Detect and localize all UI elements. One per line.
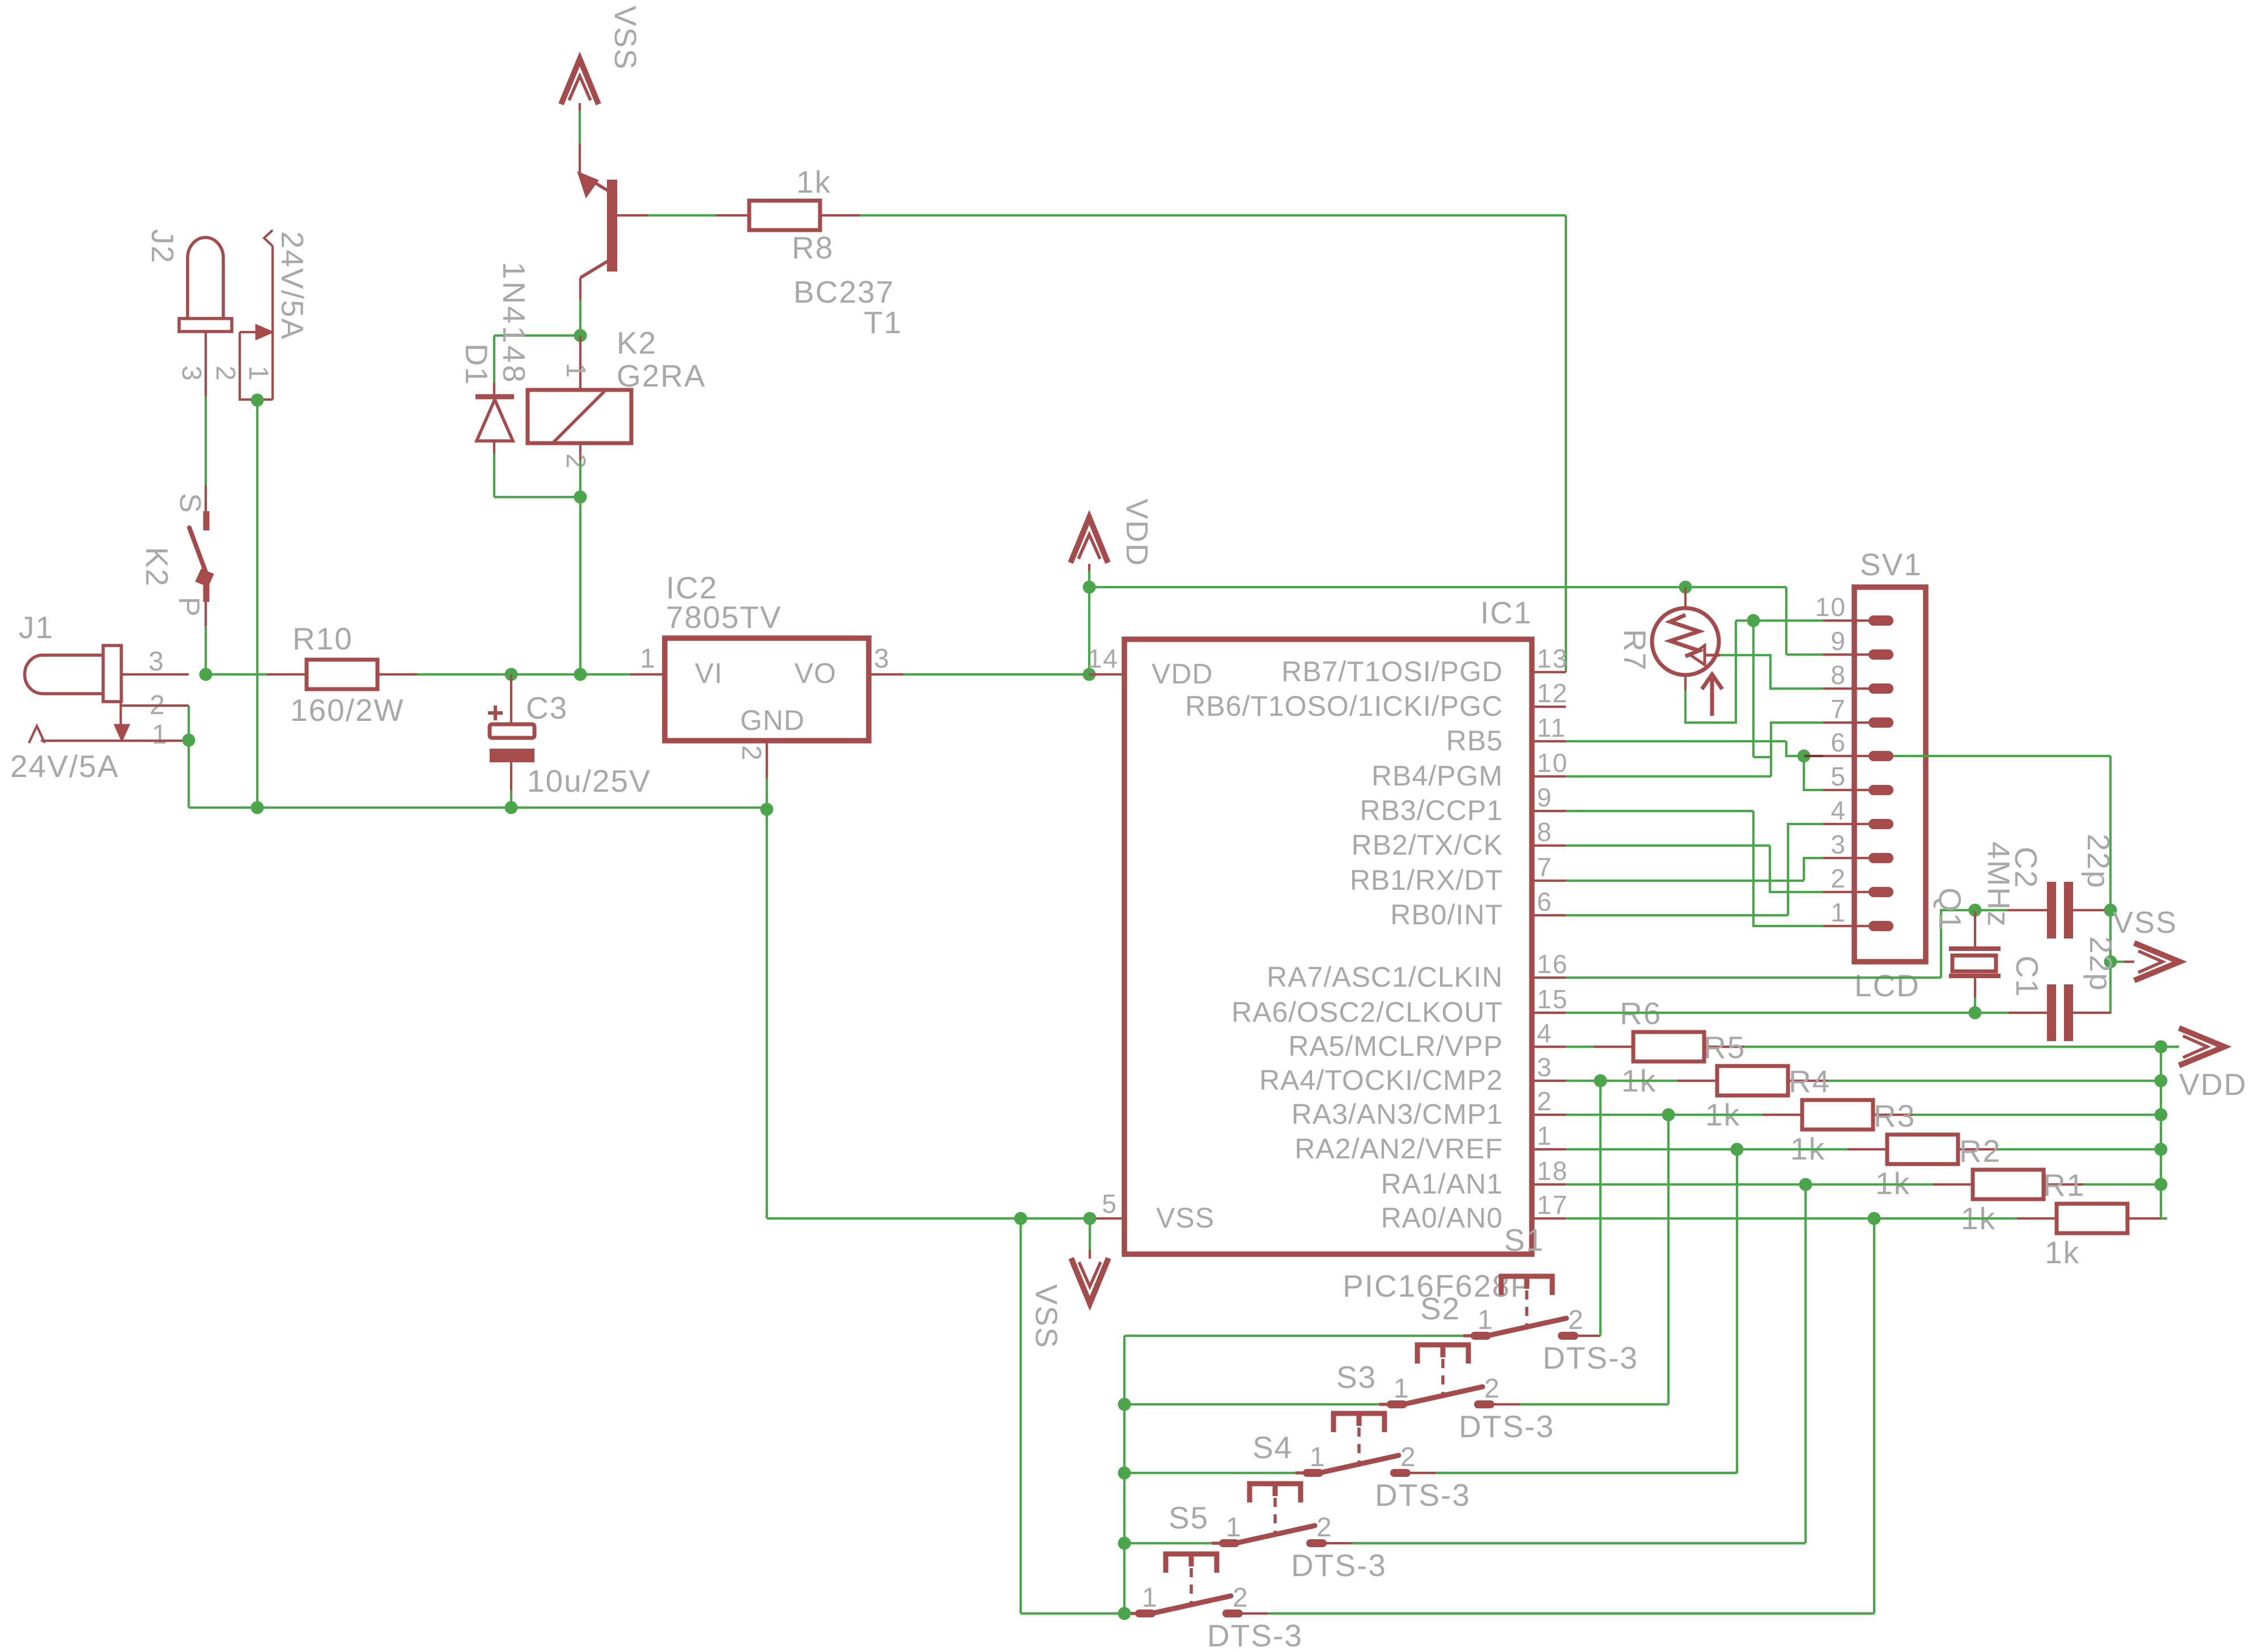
SV1 pin 7 bar <box>1868 717 1893 728</box>
switch S2 pin 2 contact <box>1478 1400 1490 1408</box>
IC1 pin 18 stub <box>1532 1183 1566 1186</box>
switch contact K2 terminal S <box>205 486 207 511</box>
wire S4 riser up to resistor ladder <box>1804 1184 1807 1543</box>
SV1 pin 8 stub <box>1823 687 1868 690</box>
diode D1 cathode bar <box>475 394 514 400</box>
wire IC1 RB4 to SV1 pin7 <box>1566 775 1771 778</box>
svg-text:RA2/AN2/VREF: RA2/AN2/VREF <box>1294 1133 1503 1165</box>
wire node to IC2 VI pin <box>580 673 630 676</box>
svg-text:22p: 22p <box>2083 936 2118 992</box>
svg-text:6: 6 <box>1830 728 1846 757</box>
wire S1 riser up to resistor ladder <box>1599 1081 1602 1336</box>
svg-text:DTS-3: DTS-3 <box>1207 1618 1303 1652</box>
capacitor C3 bottom lead <box>510 762 512 791</box>
svg-text:R8: R8 <box>792 230 834 265</box>
connector J2 sleeve line with 24V/5A flag <box>264 230 273 246</box>
resistor R8 body <box>749 201 820 230</box>
wire node to D1 cathode <box>494 334 580 337</box>
switch S5 pin 1 contact <box>1128 1612 1152 1615</box>
switch S1 pin 2 contact <box>1562 1332 1574 1340</box>
power symbol VSS (below IC1) <box>1089 1218 1091 1250</box>
switch S3 pin 1 contact <box>1296 1471 1319 1475</box>
junction node rail / IC2 GND <box>761 803 774 816</box>
junction node row R4 / switch riser <box>1662 1109 1675 1122</box>
wire S2 riser up to resistor ladder <box>1667 1115 1670 1404</box>
switch S3 lever <box>1319 1455 1399 1473</box>
svg-text:RA0/AN0: RA0/AN0 <box>1381 1202 1503 1234</box>
wire R1 to VDD riser <box>2161 1217 2167 1220</box>
wire 24V node to R10 <box>206 673 267 676</box>
junction node left rail bottom / S5 <box>1118 1607 1131 1620</box>
svg-text:15: 15 <box>1537 984 1568 1014</box>
SV1 pin 3 bar <box>1868 853 1893 863</box>
svg-text:9: 9 <box>1830 626 1846 656</box>
wire J2 pin3 down to switch K2 contact S <box>205 397 207 486</box>
crystal Q1 body <box>1952 955 1996 971</box>
capacitor C2 plates <box>2047 882 2056 938</box>
svg-text:14: 14 <box>1088 644 1119 673</box>
switch S1 lever <box>1487 1318 1566 1336</box>
VDD pin stub <box>1088 564 1090 571</box>
regulator IC2 body <box>665 638 869 741</box>
IC1 pin 15 stub <box>1532 1012 1566 1014</box>
junction node J2 pin1/pin2 <box>251 394 264 407</box>
wire IC1 RB5 to SV1 pin6 node <box>1566 740 1786 742</box>
svg-text:4: 4 <box>1830 796 1846 825</box>
wire S4 pin1 to left rail <box>1124 1542 1212 1544</box>
thermistor R7 arrow <box>1691 645 1705 665</box>
wire IC1 RB1 to SV1 pin3 <box>1566 880 1804 882</box>
junction node T1 emitter / relay coil / D1 <box>574 329 587 342</box>
switch S5 actuator dashed link <box>1190 1568 1193 1607</box>
capacitor C1 right lead <box>2071 1012 2110 1014</box>
svg-text:7805TV: 7805TV <box>666 600 782 635</box>
wire coil bottom node down to supply node <box>579 497 581 674</box>
transistor T1 base bar <box>607 180 617 271</box>
svg-text:2: 2 <box>210 366 240 382</box>
wire GND rail (24V return) <box>189 806 767 809</box>
power symbol VDD (right) <box>2161 1046 2179 1048</box>
junction node row R5 / switch riser <box>1594 1075 1607 1088</box>
IC1 pin 16 stub <box>1532 976 1566 979</box>
IC1 pin 9 stub <box>1532 810 1566 812</box>
resistor R2 right pin <box>2044 1183 2083 1186</box>
wire S5 pin2 to riser x=3307 <box>1239 1612 1874 1615</box>
IC1 pin 17 stub <box>1532 1217 1566 1220</box>
svg-text:C1: C1 <box>2010 955 2045 997</box>
svg-text:R1: R1 <box>2043 1167 2085 1203</box>
SV1 pin 3 stub <box>1823 857 1868 859</box>
svg-text:2: 2 <box>1316 1513 1333 1543</box>
junction node C3 top <box>505 668 518 681</box>
relay K2 coil pin 1 <box>579 336 581 390</box>
wire VDD riser (right) <box>2160 1047 2162 1218</box>
junction node VDD riser / R4 <box>2155 1109 2168 1122</box>
svg-text:IC1: IC1 <box>1480 595 1532 630</box>
regulator IC2 pin 2 (GND) <box>766 741 768 778</box>
resistor R1 body <box>2057 1204 2127 1233</box>
resistor R6 left pin <box>1594 1046 1633 1048</box>
thermistor R7 light arrow <box>1710 678 1714 716</box>
svg-text:RA6/OSC2/CLKOUT: RA6/OSC2/CLKOUT <box>1231 996 1503 1028</box>
wire R7 bottom to SV1 pin10 row <box>1685 621 1736 723</box>
SV1 pin 4 bar <box>1868 819 1893 829</box>
connector J1 pin 3 stub <box>121 673 189 676</box>
junction node IC1 pin14 <box>1083 668 1096 681</box>
wire IC1 RA6 to crystal bottom <box>1566 1012 1975 1014</box>
svg-text:12: 12 <box>1537 678 1568 708</box>
wire VDD rail corner to SV1 pin10 row <box>1785 587 1787 655</box>
svg-text:D1: D1 <box>459 343 494 385</box>
svg-text:2: 2 <box>736 745 766 762</box>
svg-text:R5: R5 <box>1704 1030 1745 1065</box>
svg-text:160/2W: 160/2W <box>290 693 405 728</box>
wire R3 to VDD riser <box>1998 1148 2161 1150</box>
svg-text:VSS: VSS <box>608 6 642 70</box>
wire R8 to IC1 pin13 (net to RB7) <box>860 214 1566 216</box>
wire T1 collector to VSS <box>579 103 581 111</box>
svg-text:VSS: VSS <box>1029 1284 1063 1349</box>
capacitor C2 left lead <box>1975 909 2007 911</box>
svg-text:2: 2 <box>1830 864 1846 893</box>
wire C3 to GND rail <box>510 791 512 808</box>
svg-text:C3: C3 <box>526 690 568 725</box>
SV1 pin 7 stub <box>1823 721 1868 724</box>
svg-text:7: 7 <box>1830 694 1846 724</box>
svg-text:RA4/TOCKI/CMP2: RA4/TOCKI/CMP2 <box>1259 1064 1503 1096</box>
thermistor R7 zigzag <box>1670 615 1699 656</box>
svg-text:16: 16 <box>1537 949 1568 979</box>
switch S2 actuator dashed link <box>1441 1359 1445 1398</box>
svg-text:10: 10 <box>1815 592 1846 622</box>
capacitor C3 positive lead <box>510 674 512 724</box>
junction node VSS at IC1 pin5 <box>1084 1212 1097 1225</box>
switch S5 pin 2 contact <box>1226 1609 1239 1617</box>
wire VDD rail to SV1 side <box>1089 586 1786 588</box>
IC1 pin 1 stub <box>1532 1148 1566 1150</box>
capacitor C3 bottom plate <box>490 749 534 762</box>
IC1 pin 4 stub <box>1532 1046 1566 1048</box>
connector J2 pin 1 switch arrow <box>240 331 256 333</box>
connector J1 pin 1 switch arrow <box>120 706 122 725</box>
switch contact K2 terminal P <box>203 584 210 602</box>
junction node row R3 / switch riser <box>1731 1143 1744 1156</box>
wire to SV1 pin9 <box>1786 653 1823 656</box>
svg-text:8: 8 <box>1830 660 1846 690</box>
svg-text:1: 1 <box>640 644 656 674</box>
connector SV1 body <box>1854 587 1926 962</box>
capacitor C1 plates <box>2047 984 2056 1041</box>
wire R7 light line to SV1 pin8 <box>1720 655 1823 689</box>
svg-text:18: 18 <box>1537 1156 1568 1186</box>
resistor R3 right pin <box>1958 1148 1998 1150</box>
svg-text:RB6/T1OSO/1ICKI/PGC: RB6/T1OSO/1ICKI/PGC <box>1185 690 1503 722</box>
thermistor R7 bottom pin <box>1684 675 1687 690</box>
svg-text:R7: R7 <box>1617 629 1653 671</box>
svg-text:1: 1 <box>152 720 168 750</box>
junction node left rail / S3 <box>1118 1467 1131 1480</box>
relay K2 coil slash <box>553 390 606 443</box>
svg-text:R3: R3 <box>1874 1098 1916 1133</box>
resistor R2 left pin <box>1933 1183 1973 1186</box>
crystal Q1 top lead <box>1974 910 1976 947</box>
IC1 pin 11 stub <box>1532 740 1566 742</box>
svg-text:1: 1 <box>1394 1374 1410 1404</box>
svg-text:S4: S4 <box>1252 1430 1293 1465</box>
switch S2 button cap <box>1417 1345 1468 1364</box>
IC1 pin 10 stub <box>1532 775 1566 778</box>
svg-text:1: 1 <box>1142 1583 1158 1613</box>
SV1 pin 6 stub <box>1823 755 1868 757</box>
resistor R5 right pin <box>1788 1080 1828 1082</box>
regulator IC2 pin 1 (VI) <box>630 673 665 676</box>
svg-text:RA1/AN1: RA1/AN1 <box>1381 1168 1503 1200</box>
svg-text:5: 5 <box>1830 762 1846 791</box>
svg-text:11: 11 <box>1537 713 1566 742</box>
diode D1 triangle <box>477 400 513 441</box>
thermistor R7 circle <box>1652 608 1719 675</box>
capacitor C3 top plate <box>490 724 534 738</box>
SV1 pin 8 bar <box>1868 683 1893 694</box>
junction node SV1 pin6 <box>1798 750 1811 763</box>
switch S4 pin 1 contact <box>1212 1541 1235 1545</box>
svg-text:1: 1 <box>1477 1305 1494 1335</box>
svg-text:R4: R4 <box>1789 1064 1830 1099</box>
switch contact K2 lever <box>189 528 208 578</box>
IC1 pin 12 stub <box>1532 706 1566 708</box>
power symbol VSS (top, above T1) <box>561 59 598 104</box>
svg-text:RB1/RX/DT: RB1/RX/DT <box>1350 864 1503 896</box>
wire S1 pin1 to left rail <box>1124 1335 1463 1337</box>
svg-text:17: 17 <box>1537 1190 1568 1220</box>
wire IC1 RB3 to SV1 pin1 <box>1566 810 1753 812</box>
svg-text:K2: K2 <box>617 325 657 360</box>
capacitor C1 left lead <box>1975 1012 2008 1014</box>
wire K2 P to node <box>205 626 207 674</box>
svg-text:6: 6 <box>1537 887 1553 916</box>
relay K2 coil body <box>528 390 631 443</box>
SV1 pin 2 bar <box>1868 887 1893 897</box>
svg-text:24V/5A: 24V/5A <box>10 749 119 784</box>
switch S4 button cap <box>1250 1484 1301 1502</box>
svg-text:1N4148: 1N4148 <box>496 262 532 385</box>
IC1 pin 13 stub <box>1532 671 1566 673</box>
resistor R5 left pin <box>1677 1080 1717 1082</box>
IC1 pin 2 stub <box>1532 1114 1566 1116</box>
SV1 pin 1 bar <box>1868 921 1893 931</box>
svg-text:9: 9 <box>1537 783 1553 812</box>
resistor R5 body <box>1717 1066 1788 1095</box>
junction node VDD riser / R5 <box>2155 1075 2168 1088</box>
svg-text:1k: 1k <box>796 164 831 199</box>
svg-text:Q1: Q1 <box>1933 887 1968 931</box>
wire IC2 GND node down to VSS row <box>766 809 768 1218</box>
wire IC1 row to R1 <box>1566 1217 2017 1220</box>
svg-text:RB0/INT: RB0/INT <box>1390 899 1503 931</box>
junction node row R2 / switch riser <box>1799 1178 1812 1191</box>
SV1 pin 6 bar <box>1868 751 1893 761</box>
wire pin10 node down to RB3 row <box>1752 621 1755 757</box>
resistor R4 left pin <box>1762 1114 1802 1116</box>
wire switches left rail <box>1123 1336 1125 1613</box>
wire coil pin2 to D1 node <box>579 460 581 497</box>
junction node VSS below IC1 (left) <box>1014 1212 1027 1225</box>
svg-text:2: 2 <box>1233 1583 1249 1613</box>
connector J2 base <box>179 318 232 332</box>
resistor R8 left pin <box>716 214 749 216</box>
resistor R10 left pin <box>267 673 307 676</box>
connector J2 pin 2 bracket <box>240 332 273 400</box>
wire S3 pin1 to left rail <box>1124 1472 1296 1474</box>
wire IC1 row to R4 <box>1566 1114 1762 1116</box>
transistor T1 emitter (to VSS) with arrow <box>581 175 608 190</box>
wire R10 to C3/IC2 node <box>417 673 511 676</box>
svg-text:SV1: SV1 <box>1860 547 1922 582</box>
svg-text:S1: S1 <box>1504 1222 1544 1258</box>
svg-text:7: 7 <box>1537 852 1553 882</box>
IC1 pin 6 stub <box>1532 914 1566 916</box>
SV1 pin 10 bar <box>1868 615 1893 626</box>
svg-text:1: 1 <box>243 366 273 382</box>
wire SV1 pin6 to VSS riser <box>1893 755 2110 757</box>
junction node relay supply <box>574 668 587 681</box>
power symbol VSS (right) <box>2110 961 2124 963</box>
svg-text:2: 2 <box>1400 1442 1417 1472</box>
svg-text:RB7/T1OSI/PGD: RB7/T1OSI/PGD <box>1281 656 1503 687</box>
wire VSS node down to switch rail <box>1020 1218 1022 1613</box>
wire R6 to VDD riser <box>1744 1046 2161 1048</box>
relay K2 coil pin 2 <box>579 443 581 460</box>
svg-text:G2RA: G2RA <box>617 358 706 393</box>
switch S1 button cap <box>1501 1276 1552 1295</box>
switch S4 actuator dashed link <box>1273 1498 1277 1536</box>
svg-text:DTS-3: DTS-3 <box>1375 1477 1471 1513</box>
svg-text:BC237: BC237 <box>793 274 894 309</box>
svg-text:1: 1 <box>1310 1442 1326 1472</box>
junction node J1 pin1 <box>182 734 196 747</box>
wire VDD down to IC1 pin14 <box>1088 587 1090 674</box>
junction node VSS arrow tap <box>2104 955 2117 969</box>
svg-text:S5: S5 <box>1169 1500 1209 1535</box>
diode D1 cathode lead <box>493 383 495 397</box>
wire R4 to VDD riser <box>1913 1114 2161 1116</box>
svg-text:RB2/TX/CK: RB2/TX/CK <box>1352 829 1503 861</box>
svg-text:S: S <box>173 493 206 514</box>
IC1 pin 14 stub <box>1089 673 1124 676</box>
connector J1 pin 2 bracket <box>121 702 189 706</box>
IC1 pin 5 stub <box>1090 1217 1124 1220</box>
svg-text:RB5: RB5 <box>1446 725 1503 757</box>
wire IC1 row to R2 <box>1566 1183 1933 1186</box>
wire IC1 row to R5 <box>1566 1080 1677 1082</box>
svg-text:3: 3 <box>874 644 890 674</box>
svg-text:DTS-3: DTS-3 <box>1543 1340 1638 1375</box>
SV1 pin 9 bar <box>1868 649 1893 660</box>
svg-text:1: 1 <box>1537 1121 1553 1150</box>
svg-text:P: P <box>172 597 205 618</box>
resistor R4 body <box>1802 1100 1873 1129</box>
switch S5 button cap <box>1166 1554 1217 1573</box>
IC1 pin 7 stub <box>1532 880 1566 882</box>
resistor R2 body <box>1973 1170 2044 1199</box>
SV1 pin 2 stub <box>1823 891 1868 893</box>
wire IC1 RB0 to SV1 pin4 <box>1566 914 1788 916</box>
wire D1 anode to coil bottom <box>493 453 495 497</box>
wire IC1 row to R6 <box>1566 1046 1594 1048</box>
wire S3 pin2 to riser x=3065 <box>1407 1472 1737 1474</box>
junction node coil bottom / D1 anode <box>574 491 587 504</box>
svg-text:8: 8 <box>1537 817 1553 847</box>
svg-text:22p: 22p <box>2081 834 2116 889</box>
svg-text:3: 3 <box>148 647 165 677</box>
svg-text:VDD: VDD <box>2179 1068 2247 1102</box>
diode D1 anode lead <box>493 441 495 453</box>
junction node rail / J2 branch <box>251 801 264 814</box>
svg-text:1: 1 <box>1226 1513 1242 1543</box>
svg-text:RA3/AN3/CMP1: RA3/AN3/CMP1 <box>1292 1098 1503 1130</box>
power symbol VDD (above IC1) <box>1071 517 1108 563</box>
wire S4 pin2 to riser x=3186 <box>1323 1542 1806 1544</box>
wire R2 to VDD riser <box>2083 1183 2161 1186</box>
wire IC2 VO to IC1 pin14 node <box>903 673 1089 676</box>
svg-text:S3: S3 <box>1336 1360 1377 1395</box>
wire J2 node down to GND rail <box>256 400 258 808</box>
svg-text:VI: VI <box>695 657 723 689</box>
connector J1 plug bullet <box>25 655 104 694</box>
wire node to SV1 pin6 <box>1804 755 1823 757</box>
svg-text:C2: C2 <box>2008 847 2044 889</box>
resistor R1 right pin <box>2127 1217 2167 1220</box>
svg-text:K2: K2 <box>139 547 175 587</box>
crystal Q1 bottom lead <box>1974 978 1976 997</box>
junction node J1 pin3 / K2 P <box>199 668 213 681</box>
svg-text:VSS: VSS <box>1156 1202 1214 1234</box>
switch S3 button cap <box>1333 1413 1384 1432</box>
junction node row R1 / switch riser <box>1868 1212 1881 1225</box>
svg-text:24V/5A: 24V/5A <box>275 231 310 340</box>
junction node left rail / S4 <box>1118 1537 1131 1550</box>
svg-text:DTS-3: DTS-3 <box>1291 1548 1387 1583</box>
switch S1 actuator dashed link <box>1525 1290 1528 1329</box>
transistor T1 collector diagonal <box>580 261 608 278</box>
wire S3 riser up to resistor ladder <box>1736 1149 1738 1473</box>
svg-text:RB3/CCP1: RB3/CCP1 <box>1360 795 1503 826</box>
resistor R10 body <box>307 660 377 689</box>
connector J1 base <box>103 645 121 702</box>
wire S1 pin2 to riser x=2824 <box>1574 1335 1600 1337</box>
svg-text:RA7/ASC1/CLKIN: RA7/ASC1/CLKIN <box>1267 961 1503 993</box>
svg-text:10: 10 <box>1537 748 1568 778</box>
wire S5 riser up to resistor ladder <box>1873 1218 1875 1613</box>
IC1 pin 8 stub <box>1532 844 1566 847</box>
connector J1 sleeve line with 24V/5A flag <box>29 726 45 743</box>
svg-text:RA5/MCLR/VPP: RA5/MCLR/VPP <box>1288 1030 1503 1062</box>
crystal Q1 top plate <box>1949 946 2001 951</box>
svg-text:1k: 1k <box>2045 1235 2080 1270</box>
junction node SV1 pin10 net <box>1747 614 1760 627</box>
svg-text:5: 5 <box>1102 1189 1118 1218</box>
svg-text:R2: R2 <box>1959 1133 2001 1169</box>
thermistor R7 top pin <box>1679 581 1692 594</box>
svg-text:GND: GND <box>740 704 805 736</box>
svg-text:4: 4 <box>1537 1018 1553 1048</box>
svg-text:1: 1 <box>560 363 591 379</box>
connector J1 bracket drop to node <box>188 706 190 740</box>
svg-text:VO: VO <box>795 657 836 689</box>
SV1 pin 5 bar <box>1868 785 1893 795</box>
switch S1 pin 1 contact <box>1463 1334 1487 1337</box>
wire IC1 RB2 to SV1 pin2 <box>1566 844 1770 847</box>
